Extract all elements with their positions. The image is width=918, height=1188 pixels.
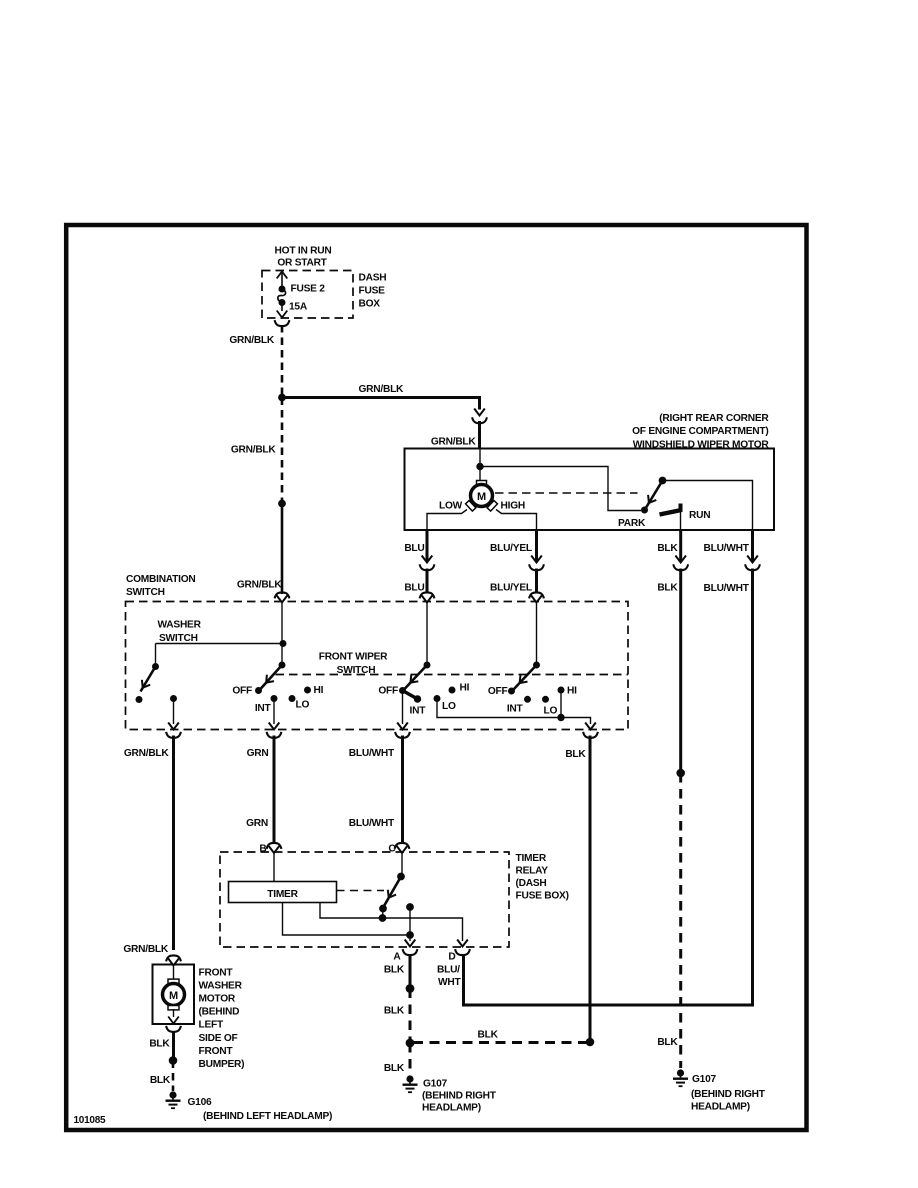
svg-text:LO: LO [544,706,558,717]
svg-text:OFF: OFF [488,686,508,697]
svg-text:BLU/WHT: BLU/WHT [349,748,395,759]
svg-text:FRONT: FRONT [199,968,234,979]
svg-text:MOTOR: MOTOR [199,994,236,1005]
svg-text:BLU/YEL: BLU/YEL [490,543,532,554]
svg-text:GRN/BLK: GRN/BLK [123,944,169,955]
svg-text:FUSE BOX): FUSE BOX) [516,891,569,902]
svg-text:BLK: BLK [384,965,405,976]
svg-text:G107: G107 [692,1074,717,1085]
svg-text:LO: LO [296,700,310,711]
svg-text:WASHER: WASHER [158,620,202,631]
svg-text:C: C [388,844,396,855]
svg-text:BLU/WHT: BLU/WHT [704,543,750,554]
svg-text:OF ENGINE COMPARTMENT): OF ENGINE COMPARTMENT) [632,426,768,437]
svg-text:GRN/BLK: GRN/BLK [229,335,275,346]
svg-text:LOW: LOW [439,501,463,512]
svg-text:BLK: BLK [478,1030,499,1041]
svg-text:RUN: RUN [689,510,710,521]
svg-text:INT: INT [507,704,524,715]
svg-text:G107: G107 [423,1079,448,1090]
svg-text:BLK: BLK [565,749,586,760]
svg-text:BOX: BOX [359,299,381,310]
svg-text:BLK: BLK [657,1037,678,1048]
svg-text:HEADLAMP): HEADLAMP) [691,1102,750,1113]
svg-text:COMBINATION: COMBINATION [126,574,196,585]
svg-text:BLU/WHT: BLU/WHT [349,818,395,829]
svg-text:BLU/: BLU/ [437,965,460,976]
svg-text:FUSE 2: FUSE 2 [291,284,326,295]
svg-text:BLU/YEL: BLU/YEL [490,583,532,594]
svg-text:(BEHIND RIGHT: (BEHIND RIGHT [691,1089,766,1100]
svg-text:WASHER: WASHER [199,981,243,992]
svg-text:(RIGHT REAR CORNER: (RIGHT REAR CORNER [659,413,769,424]
svg-text:FRONT WIPER: FRONT WIPER [319,652,388,663]
svg-text:M: M [477,491,486,503]
svg-text:OFF: OFF [232,686,252,697]
svg-text:HIGH: HIGH [501,501,525,512]
svg-text:BLK: BLK [657,543,678,554]
svg-text:FUSE: FUSE [359,286,386,297]
svg-text:(BEHIND LEFT HEADLAMP): (BEHIND LEFT HEADLAMP) [203,1111,332,1122]
svg-text:INT: INT [410,706,427,717]
svg-text:BLK: BLK [384,1006,405,1017]
svg-text:OR START: OR START [277,258,327,269]
svg-text:BLK: BLK [150,1075,171,1086]
svg-text:FRONT: FRONT [199,1046,234,1057]
svg-text:TIMER: TIMER [267,889,298,900]
svg-text:HOT IN RUN: HOT IN RUN [275,246,332,257]
svg-text:BLU: BLU [404,543,424,554]
svg-text:BUMPER): BUMPER) [199,1059,245,1070]
svg-text:RELAY: RELAY [516,866,549,877]
svg-text:(BEHIND: (BEHIND [199,1007,240,1018]
svg-text:SIDE OF: SIDE OF [199,1033,238,1044]
svg-text:GRN/BLK: GRN/BLK [359,384,405,395]
svg-text:D: D [448,952,455,963]
svg-text:LO: LO [442,701,456,712]
svg-text:HEADLAMP): HEADLAMP) [422,1103,481,1114]
svg-text:(BEHIND RIGHT: (BEHIND RIGHT [422,1091,497,1102]
svg-text:BLK: BLK [657,583,678,594]
svg-text:GRN: GRN [246,818,268,829]
svg-text:BLU: BLU [404,583,424,594]
svg-text:M: M [169,990,178,1002]
svg-text:DASH: DASH [359,273,387,284]
svg-text:GRN/BLK: GRN/BLK [237,580,283,591]
svg-text:BLU/WHT: BLU/WHT [704,583,750,594]
svg-text:15A: 15A [289,302,308,313]
svg-text:BLK: BLK [384,1063,405,1074]
svg-text:WHT: WHT [438,977,461,988]
svg-text:HI: HI [460,683,470,694]
svg-text:GRN/BLK: GRN/BLK [431,437,477,448]
svg-text:OFF: OFF [378,686,398,697]
svg-text:A: A [393,952,401,963]
svg-text:B: B [259,844,266,855]
svg-text:GRN: GRN [247,748,269,759]
svg-text:BLK: BLK [149,1039,170,1050]
svg-text:TIMER: TIMER [516,853,547,864]
svg-text:101085: 101085 [74,1115,107,1126]
svg-text:GRN/BLK: GRN/BLK [231,445,277,456]
svg-text:PARK: PARK [618,518,646,529]
svg-text:SWITCH: SWITCH [126,587,165,598]
svg-text:INT: INT [255,703,272,714]
svg-text:G106: G106 [188,1097,213,1108]
svg-text:SWITCH: SWITCH [159,633,198,644]
svg-text:SWITCH: SWITCH [337,665,376,676]
svg-text:LEFT: LEFT [199,1020,224,1031]
svg-text:HI: HI [314,685,324,696]
svg-text:HI: HI [567,686,577,697]
svg-text:(DASH: (DASH [516,878,547,889]
svg-text:GRN/BLK: GRN/BLK [124,748,170,759]
